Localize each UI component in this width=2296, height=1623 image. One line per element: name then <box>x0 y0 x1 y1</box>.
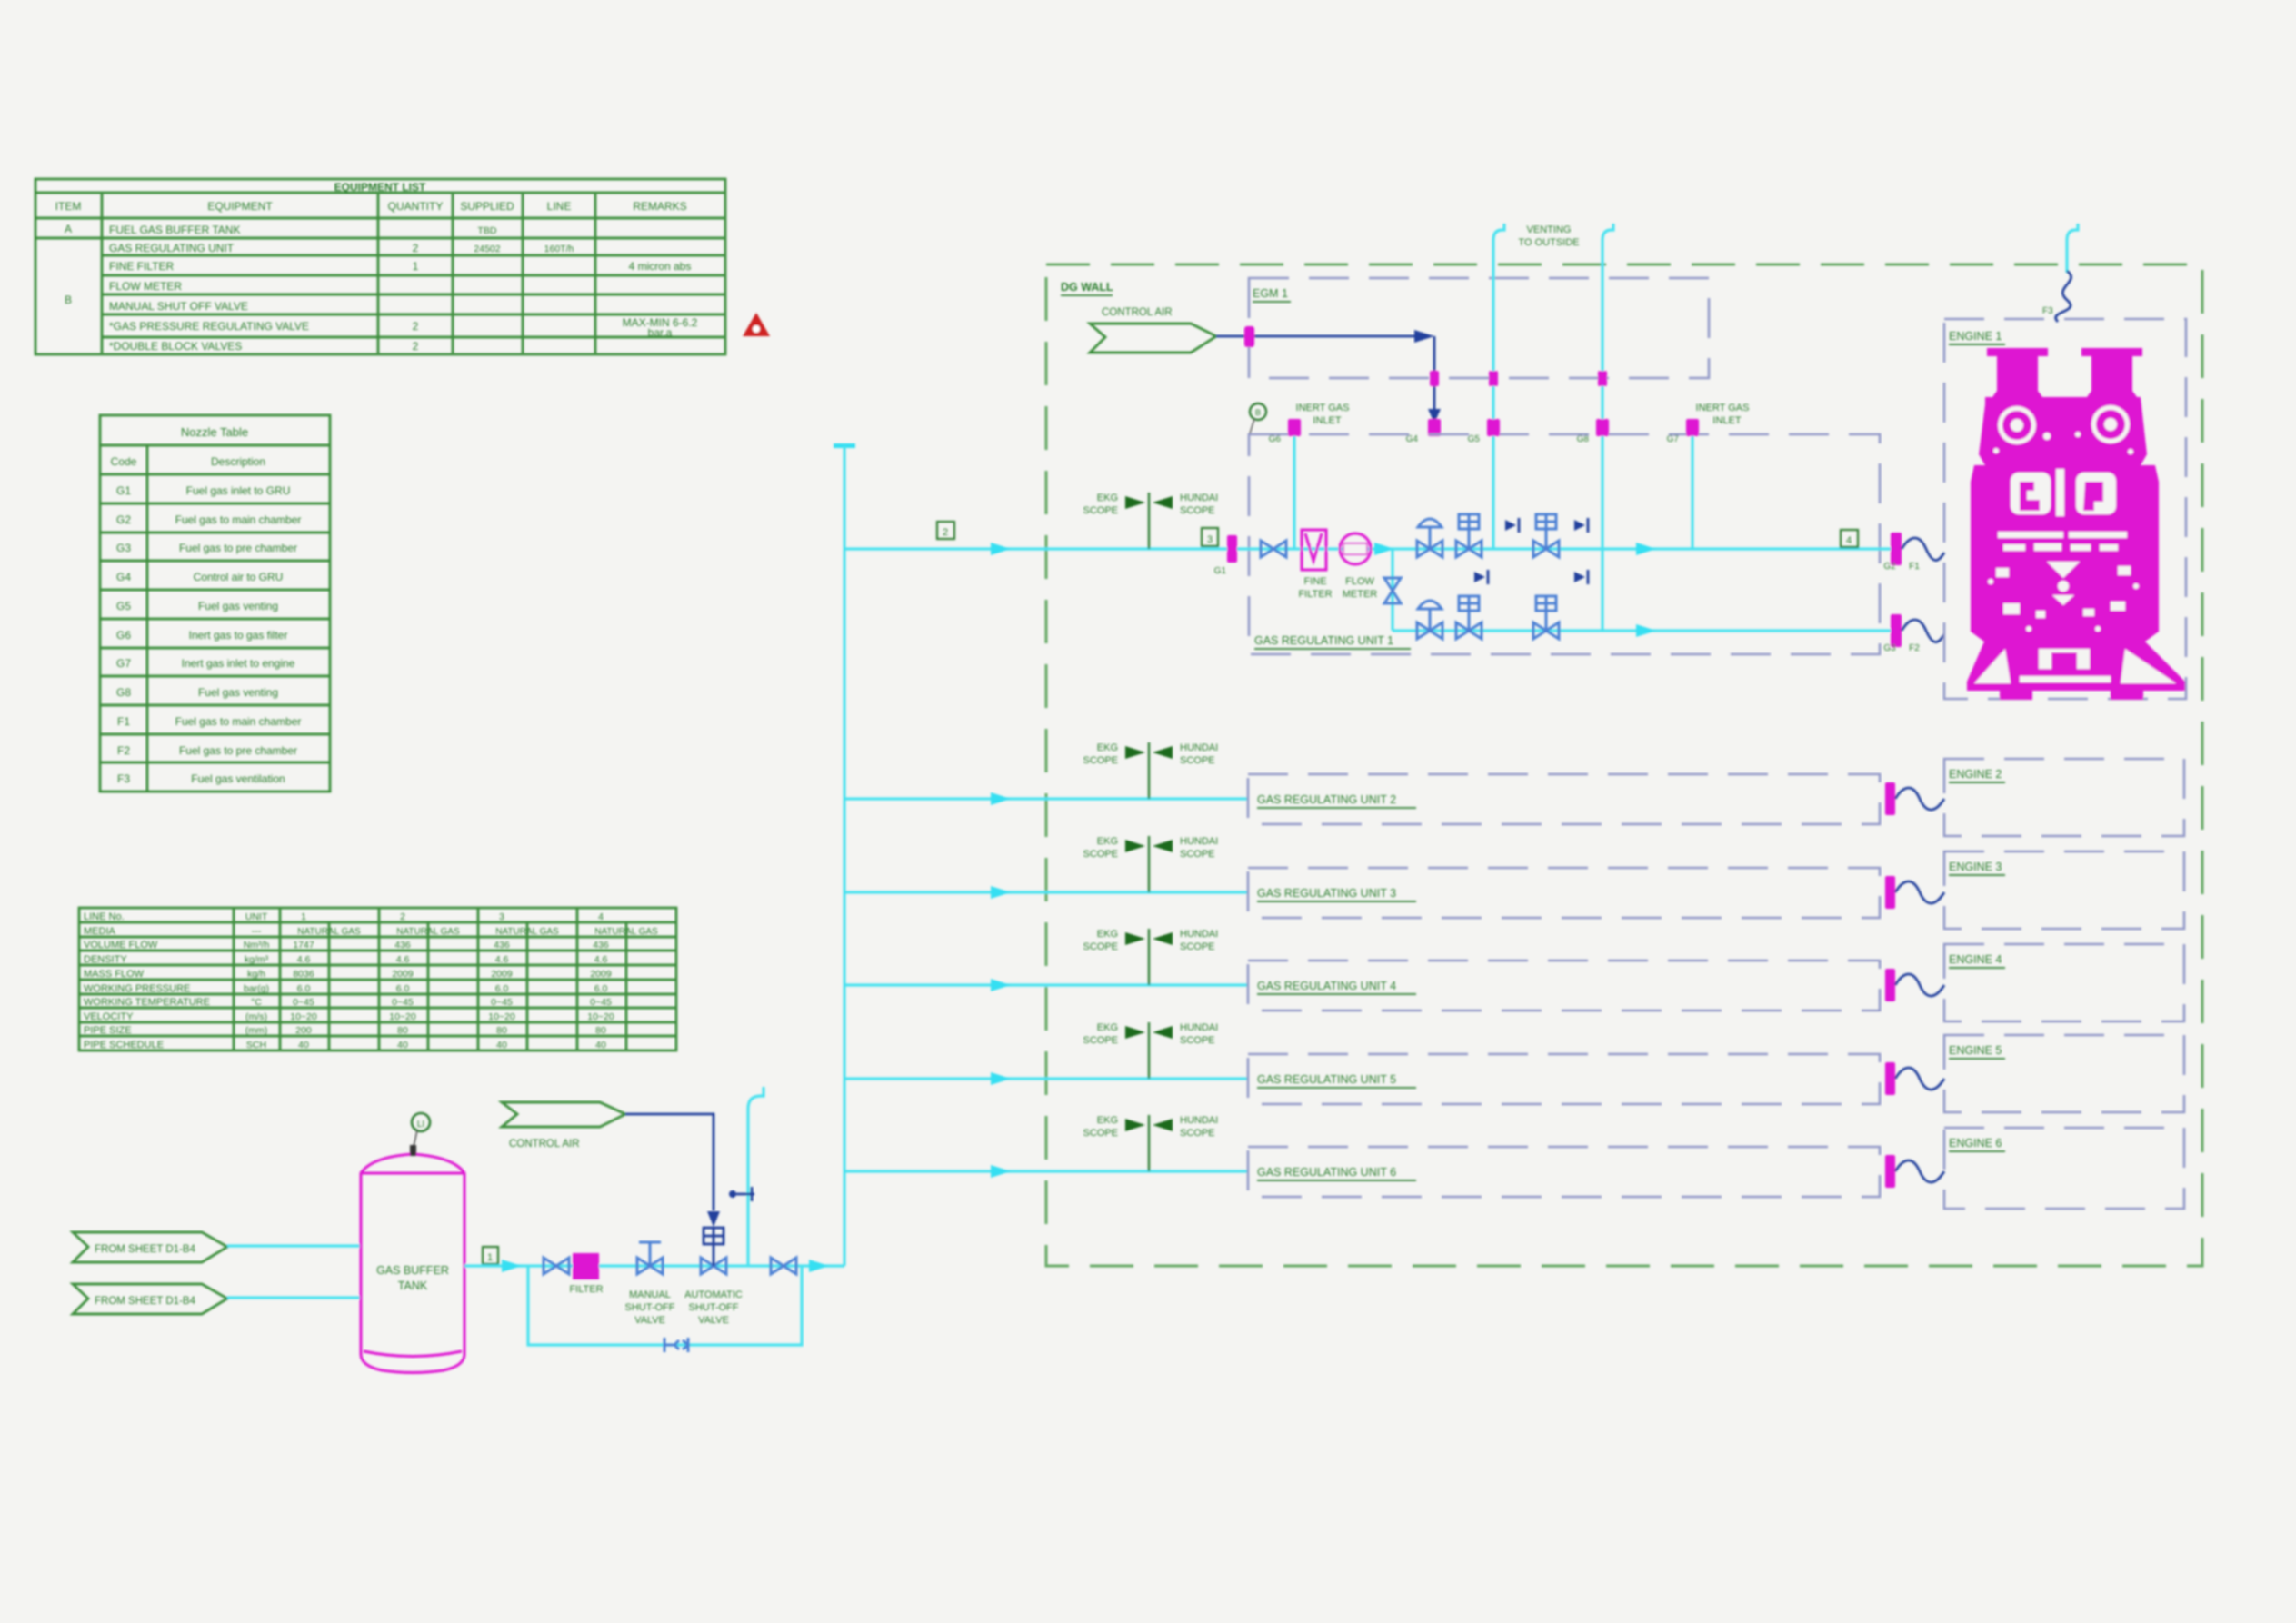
svg-text:10~20: 10~20 <box>389 1011 416 1022</box>
vent gooseneck <box>748 1087 764 1266</box>
svg-text:4 micron abs: 4 micron abs <box>629 260 692 273</box>
vent line G8 to outside <box>1602 224 1613 631</box>
valve globe dome (main line) <box>1417 519 1442 557</box>
svg-text:EKG: EKG <box>1097 493 1118 503</box>
svg-text:F3: F3 <box>2042 306 2053 316</box>
svg-text:SCH: SCH <box>246 1040 266 1050</box>
svg-text:4.6: 4.6 <box>396 954 410 965</box>
flow arrow before header junction <box>809 1260 829 1272</box>
tick GRU3 outlet <box>1885 876 1895 909</box>
scope break symbol row6 <box>1083 1115 1218 1171</box>
svg-text:LINE: LINE <box>547 200 572 213</box>
svg-text:2: 2 <box>413 242 419 254</box>
svg-text:EGM 1: EGM 1 <box>1253 287 1288 300</box>
svg-text:HUNDAI: HUNDAI <box>1180 836 1218 847</box>
engine feet <box>2000 691 2032 700</box>
svg-text:G8: G8 <box>116 686 131 699</box>
svg-text:Fuel gas inlet to GRU: Fuel gas inlet to GRU <box>186 484 291 497</box>
tick G8 GRU boundary <box>1577 419 1609 444</box>
svg-text:INERT GAS: INERT GAS <box>1696 403 1750 413</box>
svg-text:VELOCITY: VELOCITY <box>84 1011 134 1022</box>
svg-text:3: 3 <box>499 911 504 922</box>
ENGINE 5 enclosure <box>1944 1035 2184 1112</box>
svg-text:6.0: 6.0 <box>396 983 410 994</box>
svg-text:1: 1 <box>487 1252 493 1263</box>
svg-text:bar(g): bar(g) <box>244 983 269 994</box>
valve globe boxtop A (main line) <box>1456 514 1482 557</box>
control air tubing (bottom) <box>625 1114 714 1210</box>
svg-text:PIPE SIZE: PIPE SIZE <box>84 1025 132 1036</box>
svg-text:G1: G1 <box>116 484 131 497</box>
svg-text:SCOPE: SCOPE <box>1083 941 1118 952</box>
svg-text:F3: F3 <box>117 772 130 785</box>
control air pennant (top) <box>1090 307 1216 353</box>
svg-text:GAS REGULATING UNIT 4: GAS REGULATING UNIT 4 <box>1257 980 1396 992</box>
svg-text:ENGINE 2: ENGINE 2 <box>1949 768 2002 781</box>
svg-text:F2: F2 <box>1909 643 1920 653</box>
solenoid pair B <box>1574 518 1588 533</box>
valve manual ball (tank outlet) <box>544 1258 569 1274</box>
svg-text:ENGINE 6: ENGINE 6 <box>1949 1137 2002 1150</box>
svg-text:2: 2 <box>943 527 948 538</box>
svg-text:SCOPE: SCOPE <box>1083 1128 1118 1139</box>
DG WALL boundary <box>1046 264 2202 1266</box>
solenoid pair D <box>1574 570 1588 584</box>
flex hose GRU2-ENGINE2 <box>1895 788 1944 810</box>
inert gas inlet G7 <box>1667 403 1750 549</box>
engine 1 machine drawing <box>1967 348 2185 700</box>
turbocharger left <box>1998 406 2036 444</box>
svg-text:WORKING PRESSURE: WORKING PRESSURE <box>84 983 190 994</box>
svg-text:INERT GAS: INERT GAS <box>1296 403 1350 413</box>
engine lower details <box>1996 568 2009 577</box>
svg-text:TO OUTSIDE: TO OUTSIDE <box>1518 237 1579 248</box>
svg-text:°C: °C <box>251 997 262 1008</box>
flow arrow after meter <box>1374 543 1394 555</box>
svg-text:INLET: INLET <box>1712 415 1741 426</box>
flow arrow branch 5 <box>991 1072 1011 1085</box>
svg-text:436: 436 <box>494 940 510 951</box>
svg-text:2: 2 <box>413 320 419 333</box>
svg-text:CONTROL AIR: CONTROL AIR <box>509 1139 580 1150</box>
pipe tank inlet 2 <box>227 1296 362 1299</box>
svg-text:4.6: 4.6 <box>495 954 509 965</box>
svg-text:GAS REGULATING UNIT: GAS REGULATING UNIT <box>109 242 235 254</box>
svg-text:DENSITY: DENSITY <box>84 954 127 965</box>
scope break symbol row5 <box>1083 1022 1218 1079</box>
svg-text:EKG: EKG <box>1097 742 1118 753</box>
svg-text:24502: 24502 <box>474 244 500 254</box>
nozzle table <box>100 415 330 792</box>
svg-text:Description: Description <box>211 455 265 468</box>
svg-text:FLOW: FLOW <box>1345 576 1374 587</box>
engine center vee <box>2047 562 2080 578</box>
svg-text:Inert gas inlet to engine: Inert gas inlet to engine <box>182 657 295 670</box>
GRU6 enclosure <box>1248 1147 1880 1197</box>
svg-text:B: B <box>1255 408 1261 417</box>
svg-text:Nm³/h: Nm³/h <box>244 940 270 951</box>
tick G1 <box>1214 535 1237 576</box>
tick GRU5 outlet <box>1885 1062 1895 1095</box>
svg-text:EQUIPMENT LIST: EQUIPMENT LIST <box>334 181 426 194</box>
svg-text:G6: G6 <box>1269 434 1282 444</box>
tick G8 EGM boundary <box>1598 371 1607 386</box>
flow arrow branch 2 <box>991 792 1011 805</box>
flow arrow pre line out <box>1636 624 1656 637</box>
svg-text:Control air to GRU: Control air to GRU <box>194 571 284 583</box>
svg-text:200: 200 <box>295 1025 312 1036</box>
tick G3 <box>1883 614 1920 653</box>
svg-text:6.0: 6.0 <box>495 983 509 994</box>
ENGINE 4 enclosure <box>1944 944 2184 1021</box>
svg-text:GAS REGULATING UNIT 5: GAS REGULATING UNIT 5 <box>1257 1073 1396 1086</box>
filter unit <box>569 1253 603 1295</box>
svg-text:FUEL GAS BUFFER TANK: FUEL GAS BUFFER TANK <box>109 224 240 236</box>
engine gallery band <box>1998 532 2127 538</box>
svg-text:GAS BUFFER: GAS BUFFER <box>376 1264 449 1277</box>
svg-text:10~20: 10~20 <box>587 1011 614 1022</box>
node 4 <box>1841 530 1858 547</box>
svg-text:4.6: 4.6 <box>594 954 608 965</box>
svg-text:0~45: 0~45 <box>293 997 314 1008</box>
flow meter <box>1340 533 1377 600</box>
pipe branch GRU4 <box>844 983 1248 986</box>
pipe main distribution header <box>834 443 855 1266</box>
svg-text:TBD: TBD <box>478 225 497 236</box>
flow arrow branch 1 <box>991 543 1011 555</box>
svg-text:10~20: 10~20 <box>488 1011 515 1022</box>
svg-text:SCOPE: SCOPE <box>1180 505 1215 516</box>
flow arrow outlet <box>502 1260 522 1272</box>
svg-text:MANUAL SHUT OFF VALVE: MANUAL SHUT OFF VALVE <box>109 300 248 313</box>
svg-text:ENGINE 5: ENGINE 5 <box>1949 1044 2002 1057</box>
pipe branch GRU6 <box>844 1170 1248 1172</box>
revision triangle <box>743 313 770 336</box>
pipe GRU1 main chamber line <box>1237 547 1892 550</box>
instrument balloon on tank <box>410 1113 430 1156</box>
GRU5 enclosure <box>1248 1054 1880 1104</box>
svg-text:SCOPE: SCOPE <box>1180 941 1215 952</box>
svg-text:LINE No.: LINE No. <box>84 911 125 922</box>
svg-text:Fuel gas to main chamber: Fuel gas to main chamber <box>175 715 302 728</box>
engine exhaust stack left <box>1987 348 2048 397</box>
svg-text:SCOPE: SCOPE <box>1180 849 1215 860</box>
svg-text:G5: G5 <box>1468 434 1481 444</box>
relief valve on drop <box>1384 578 1401 603</box>
svg-text:QUANTITY: QUANTITY <box>388 200 444 213</box>
GRU2 enclosure <box>1248 774 1880 824</box>
svg-text:40: 40 <box>397 1040 408 1050</box>
svg-text:EKG: EKG <box>1097 1022 1118 1033</box>
svg-text:436: 436 <box>593 940 609 951</box>
turbocharger right <box>2091 405 2130 443</box>
engine speckles <box>1993 448 1999 453</box>
svg-text:LI: LI <box>417 1120 424 1130</box>
svg-text:kg/h: kg/h <box>247 969 265 980</box>
scope break symbol row3 <box>1083 836 1218 892</box>
svg-text:Fuel gas venting: Fuel gas venting <box>198 686 278 699</box>
svg-text:Inert gas to gas filter: Inert gas to gas filter <box>189 629 288 642</box>
svg-text:VOLUME FLOW: VOLUME FLOW <box>84 940 158 951</box>
svg-text:VALVE: VALVE <box>698 1315 729 1326</box>
svg-text:GAS REGULATING UNIT 6: GAS REGULATING UNIT 6 <box>1257 1166 1396 1179</box>
control air pennant (bottom) <box>502 1102 625 1150</box>
svg-text:G4: G4 <box>116 571 131 583</box>
engine block mid <box>1971 465 2159 642</box>
spec break tick on control air <box>1244 326 1254 347</box>
solenoid pair C <box>1474 570 1488 584</box>
svg-text:G1: G1 <box>1214 566 1227 576</box>
svg-text:METER: METER <box>1343 589 1378 600</box>
flex hose GRU5-ENGINE5 <box>1895 1068 1944 1090</box>
tick GRU4 outlet <box>1885 969 1895 1001</box>
tick G2 <box>1883 533 1920 572</box>
svg-text:G2: G2 <box>116 513 131 526</box>
svg-text:A: A <box>65 223 72 235</box>
flex hose GRU4-ENGINE4 <box>1895 974 1944 996</box>
svg-text:80: 80 <box>496 1025 507 1036</box>
EGM 1 enclosure <box>1249 278 1709 378</box>
svg-text:1: 1 <box>413 260 419 273</box>
scope break symbol row4 <box>1083 929 1218 985</box>
svg-text:EQUIPMENT: EQUIPMENT <box>207 200 273 213</box>
svg-text:Fuel gas to main chamber: Fuel gas to main chamber <box>175 513 302 526</box>
svg-text:6.0: 6.0 <box>594 983 608 994</box>
svg-text:(mm): (mm) <box>245 1025 268 1036</box>
svg-text:GAS REGULATING UNIT 3: GAS REGULATING UNIT 3 <box>1257 887 1396 900</box>
engine exhaust stack right <box>2081 348 2142 397</box>
svg-text:4: 4 <box>1846 535 1852 546</box>
svg-text:2009: 2009 <box>491 969 513 980</box>
scope break symbol row1 <box>1083 493 1218 549</box>
svg-text:WORKING TEMPERATURE: WORKING TEMPERATURE <box>84 997 210 1008</box>
svg-text:SCOPE: SCOPE <box>1083 1035 1118 1046</box>
svg-text:kg/m³: kg/m³ <box>245 954 269 965</box>
svg-text:bar.a: bar.a <box>648 326 673 339</box>
svg-text:CONTROL AIR: CONTROL AIR <box>1102 307 1173 318</box>
svg-text:UNIT: UNIT <box>245 911 268 922</box>
svg-text:0~45: 0~45 <box>491 997 513 1008</box>
ENGINE 2 enclosure <box>1944 759 2184 836</box>
svg-text:SCOPE: SCOPE <box>1180 1128 1215 1139</box>
tick G5 GRU boundary <box>1468 419 1500 444</box>
svg-text:INLET: INLET <box>1313 415 1341 426</box>
pipe branch GRU3 <box>844 891 1248 893</box>
ENGINE 6 enclosure <box>1944 1128 2184 1209</box>
svg-text:(m/s): (m/s) <box>245 1011 267 1022</box>
tick GRU2 outlet <box>1885 782 1895 815</box>
inert gas inlet G6 <box>1250 403 1349 549</box>
svg-text:10~20: 10~20 <box>290 1011 317 1022</box>
svg-text:40: 40 <box>595 1040 606 1050</box>
valve ball GRU1 inlet <box>1261 541 1286 557</box>
svg-text:1747: 1747 <box>293 940 314 951</box>
svg-text:0~45: 0~45 <box>590 997 612 1008</box>
label venting to outside <box>1518 224 1579 248</box>
svg-text:NATURAL GAS: NATURAL GAS <box>495 927 559 937</box>
svg-text:EKG: EKG <box>1097 1115 1118 1126</box>
svg-text:DG WALL: DG WALL <box>1061 281 1113 294</box>
svg-text:40: 40 <box>298 1040 309 1050</box>
svg-text:Fuel gas venting: Fuel gas venting <box>198 600 278 612</box>
svg-text:4: 4 <box>598 911 604 922</box>
svg-text:FILTER: FILTER <box>1298 589 1332 600</box>
off-page connector FROM SHEET D1-B4 (upper) <box>73 1232 227 1262</box>
svg-text:436: 436 <box>394 940 411 951</box>
svg-text:HUNDAI: HUNDAI <box>1180 929 1218 940</box>
svg-text:G8: G8 <box>1577 434 1590 444</box>
svg-text:4.6: 4.6 <box>297 954 311 965</box>
svg-text:G2: G2 <box>1883 562 1896 572</box>
flex hose G2-F1 <box>1902 538 1944 561</box>
svg-text:6.0: 6.0 <box>297 983 311 994</box>
svg-text:2: 2 <box>400 911 405 922</box>
scope break symbol row2 <box>1083 742 1218 799</box>
svg-text:SHUT-OFF: SHUT-OFF <box>689 1302 739 1313</box>
svg-text:VENTING: VENTING <box>1527 224 1572 235</box>
svg-text:2: 2 <box>413 340 419 353</box>
vessel gas buffer tank <box>361 1154 464 1373</box>
flex hose G3-F2 <box>1902 620 1944 642</box>
svg-text:FILTER: FILTER <box>569 1284 603 1295</box>
svg-text:ENGINE 1: ENGINE 1 <box>1949 330 2002 343</box>
valve small on vent <box>729 1187 754 1201</box>
svg-text:3: 3 <box>1207 534 1213 545</box>
svg-text:Code: Code <box>111 455 137 468</box>
ENGINE 3 enclosure <box>1944 851 2184 929</box>
pipe tank inlet 1 <box>227 1244 362 1247</box>
svg-text:NATURAL GAS: NATURAL GAS <box>396 927 460 937</box>
valve automatic shut-off with actuator <box>684 1211 743 1326</box>
svg-text:FROM SHEET D1-B4: FROM SHEET D1-B4 <box>95 1244 196 1255</box>
svg-text:EKG: EKG <box>1097 836 1118 847</box>
svg-text:F1: F1 <box>1909 562 1920 572</box>
flex hose F3 <box>2042 271 2071 322</box>
svg-text:REMARKS: REMARKS <box>633 200 686 213</box>
solenoid pair A <box>1505 518 1519 533</box>
engine white pocket left <box>2011 473 2051 514</box>
svg-text:*DOUBLE BLOCK VALVES: *DOUBLE BLOCK VALVES <box>109 340 242 353</box>
pipe tank outlet header <box>464 1264 844 1267</box>
pipe branch GRU1 <box>844 547 1232 550</box>
svg-text:SUPPLIED: SUPPLIED <box>460 200 514 213</box>
svg-text:ENGINE 4: ENGINE 4 <box>1949 953 2002 966</box>
fine filter <box>1298 530 1332 600</box>
svg-text:ENGINE 3: ENGINE 3 <box>1949 861 2002 873</box>
svg-text:B: B <box>65 294 72 306</box>
svg-text:G7: G7 <box>116 657 131 670</box>
svg-text:NATURAL GAS: NATURAL GAS <box>297 927 361 937</box>
svg-text:Fuel gas ventilation: Fuel gas ventilation <box>191 772 285 785</box>
svg-text:2009: 2009 <box>590 969 612 980</box>
svg-text:SCOPE: SCOPE <box>1180 1035 1215 1046</box>
flex hose GRU3-ENGINE3 <box>1895 881 1944 903</box>
svg-text:SCOPE: SCOPE <box>1083 849 1118 860</box>
svg-text:0~45: 0~45 <box>392 997 414 1008</box>
valve globe boxtop C (pre line) <box>1456 596 1482 639</box>
svg-text:G7: G7 <box>1667 434 1680 444</box>
svg-text:MEDIA: MEDIA <box>84 926 116 937</box>
valve globe boxtop B (main line) <box>1533 514 1559 557</box>
svg-text:TANK: TANK <box>398 1279 428 1292</box>
node 1 <box>483 1247 498 1264</box>
svg-text:*GAS PRESSURE REGULATING VALVE: *GAS PRESSURE REGULATING VALVE <box>109 320 309 333</box>
ENGINE 1 enclosure <box>1944 319 2186 699</box>
svg-text:VALVE: VALVE <box>634 1315 665 1326</box>
svg-text:G3: G3 <box>1883 643 1896 653</box>
svg-text:G3: G3 <box>116 542 131 554</box>
svg-text:---: --- <box>252 926 262 937</box>
flex hose GRU6-ENGINE6 <box>1895 1160 1944 1182</box>
svg-text:HUNDAI: HUNDAI <box>1180 742 1218 753</box>
svg-text:1: 1 <box>301 911 306 922</box>
flow arrow main line out <box>1636 543 1656 555</box>
bypass pipe <box>528 1266 802 1345</box>
GRU1 enclosure <box>1249 434 1880 654</box>
svg-text:HUNDAI: HUNDAI <box>1180 1022 1218 1033</box>
engine base skirt <box>1967 642 2185 691</box>
svg-text:G4: G4 <box>1406 434 1419 444</box>
valve ball (second, after automatic) <box>771 1258 796 1274</box>
pipe branch GRU2 <box>844 797 1248 800</box>
equipment list table <box>35 179 725 354</box>
bypass restriction glyph <box>664 1338 688 1352</box>
svg-text:GAS REGULATING UNIT 2: GAS REGULATING UNIT 2 <box>1257 793 1396 806</box>
svg-text:MANUAL: MANUAL <box>629 1289 671 1300</box>
svg-text:AUTOMATIC: AUTOMATIC <box>684 1289 743 1300</box>
svg-text:Fuel gas to pre chamber: Fuel gas to pre chamber <box>179 542 297 554</box>
engine turbo deck <box>1979 397 2147 465</box>
svg-text:80: 80 <box>595 1025 606 1036</box>
tick G5 EGM boundary <box>1489 371 1498 386</box>
line data table <box>79 908 676 1050</box>
pipe GRU1 pre chamber branch drop <box>1391 549 1393 631</box>
svg-text:EKG: EKG <box>1097 929 1118 940</box>
svg-text:SHUT-OFF: SHUT-OFF <box>625 1302 675 1313</box>
svg-text:80: 80 <box>397 1025 408 1036</box>
svg-text:SCOPE: SCOPE <box>1083 505 1118 516</box>
flow arrow branch 4 <box>991 979 1011 991</box>
svg-text:SCOPE: SCOPE <box>1083 755 1118 766</box>
svg-text:HUNDAI: HUNDAI <box>1180 1115 1218 1126</box>
valve globe dome (pre line) <box>1417 601 1442 639</box>
vent F3 riser <box>2067 224 2078 273</box>
engine center slot <box>2056 469 2064 516</box>
svg-text:160T/h: 160T/h <box>544 244 574 254</box>
svg-text:FINE FILTER: FINE FILTER <box>109 260 174 273</box>
control air tubing (top) <box>1216 330 1441 434</box>
flow arrow branch 3 <box>991 886 1011 899</box>
svg-text:Fuel gas to pre chamber: Fuel gas to pre chamber <box>179 744 297 757</box>
svg-text:F1: F1 <box>117 715 130 728</box>
engine white pocket right <box>2076 473 2116 514</box>
off-page connector FROM SHEET D1-B4 (lower) <box>73 1284 227 1314</box>
valve manual shut-off <box>625 1242 675 1326</box>
svg-text:F2: F2 <box>117 744 130 757</box>
tick GRU6 outlet <box>1885 1155 1895 1188</box>
node 3 <box>1202 528 1218 546</box>
pipe branch GRU5 <box>844 1077 1248 1080</box>
tick G4 EGM boundary <box>1430 371 1439 386</box>
GRU4 enclosure <box>1248 961 1880 1011</box>
node 2 <box>937 522 954 539</box>
svg-text:8036: 8036 <box>293 969 314 980</box>
svg-text:HUNDAI: HUNDAI <box>1180 493 1218 503</box>
svg-text:G6: G6 <box>116 629 131 642</box>
svg-text:FLOW METER: FLOW METER <box>109 280 182 293</box>
svg-text:SCOPE: SCOPE <box>1180 755 1215 766</box>
svg-text:NATURAL GAS: NATURAL GAS <box>594 927 658 937</box>
